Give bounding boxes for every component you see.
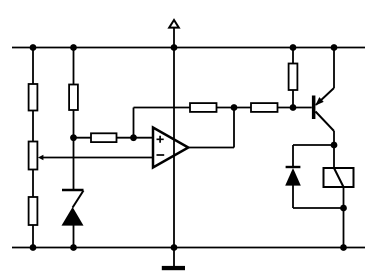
transistor Q1 emitter wire <box>333 48 335 89</box>
wire op-amp output <box>188 147 234 149</box>
resistor R7 <box>251 103 278 112</box>
resistor R8 <box>289 64 298 91</box>
wire wiper to op-amp inverting input <box>42 157 153 159</box>
junction bottom rail col B <box>70 244 77 251</box>
wire node B to resistor R5 <box>74 137 92 139</box>
resistor R5 <box>91 133 117 142</box>
junction bottom rail ground tap <box>171 244 178 251</box>
ground <box>162 266 185 270</box>
zener diode D1 anode triangle <box>62 207 84 226</box>
wire node E to bottom rail <box>343 208 345 248</box>
junction base node <box>290 104 297 111</box>
wire R4 down to zener <box>73 110 75 189</box>
wire diode bottom <box>292 185 294 208</box>
potentiometer R2 body <box>29 142 38 170</box>
supply arrow symbol VCC <box>169 20 179 28</box>
junction bottom rail col A <box>30 244 37 251</box>
wire R3 to bottom rail <box>32 225 34 248</box>
junction top rail col B <box>70 44 77 51</box>
transistor Q1 base bar <box>312 96 316 120</box>
junction top rail supply <box>171 44 178 51</box>
wire R1 to potentiometer <box>32 111 34 142</box>
op-amp U1 minus sign <box>157 154 165 156</box>
junction node C <box>231 104 238 111</box>
wire column B top <box>73 48 75 85</box>
op-amp U1 <box>153 128 188 168</box>
wire feedback top left <box>134 107 191 109</box>
relay K1 diagonal <box>334 168 344 187</box>
resistor R4 <box>69 85 78 111</box>
junction top rail emitter <box>331 44 338 51</box>
transistor Q1 collector diagonal <box>316 112 335 132</box>
wire node C to resistor R7 <box>234 107 251 109</box>
transistor Q1 emitter arrow <box>315 97 324 106</box>
junction node E <box>340 205 347 212</box>
relay K1 coil box <box>324 168 354 187</box>
resistor R1 <box>29 84 38 111</box>
wire node D to relay <box>333 145 335 168</box>
wire column A top <box>32 48 34 85</box>
junction node B <box>70 134 77 141</box>
junction noninverting input node <box>130 134 137 141</box>
wire vertical supply-to-ground center line <box>173 28 175 267</box>
wire R5 to op-amp non-inverting input <box>117 137 154 139</box>
wire R8 top <box>292 48 294 64</box>
op-amp U1 plus sign <box>157 136 164 143</box>
wire feedback riser <box>133 108 135 138</box>
diode D2 cathode bar <box>286 166 301 168</box>
wire top supply rail <box>12 47 365 49</box>
junction top rail col A <box>30 44 37 51</box>
zener diode D1 cathode bar <box>62 189 84 191</box>
potentiometer R2 wiper arrow <box>38 155 43 161</box>
junction node D <box>331 142 338 149</box>
wire potentiometer to R3 <box>32 170 34 198</box>
wire R8 to base node <box>292 90 294 108</box>
wire bottom ground rail <box>12 247 365 249</box>
wire R7 to base node <box>278 107 312 109</box>
wire node D to diode <box>293 144 334 146</box>
wire diode top <box>292 145 294 167</box>
wire diode to node E <box>293 207 344 209</box>
wire collector down <box>333 131 335 145</box>
wire R6 to node C <box>217 107 235 109</box>
wire relay to node E <box>343 187 345 208</box>
junction bottom rail relay <box>340 244 347 251</box>
junction top rail R8 <box>290 44 297 51</box>
diode D2 anode triangle <box>285 168 301 186</box>
wire output riser to node C <box>233 108 235 148</box>
wire zener to bottom rail <box>73 225 75 248</box>
transistor Q1 emitter diagonal <box>316 88 334 105</box>
zener diode D1 cathode tail <box>73 191 84 208</box>
resistor R3 <box>29 197 38 225</box>
resistor R6 feedback <box>190 103 217 112</box>
